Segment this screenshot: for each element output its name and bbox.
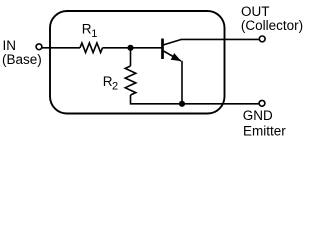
wire R1 to base — [103, 47, 162, 49]
collector lead — [164, 39, 182, 45]
wire collector to OUT — [181, 38, 259, 40]
svg-text:(Base): (Base) — [2, 52, 42, 67]
emitter arrowhead — [171, 53, 182, 61]
node base junction — [127, 45, 133, 51]
svg-text:1: 1 — [91, 28, 97, 40]
wire emitter down — [181, 61, 183, 104]
wire junction down to R2 — [130, 48, 132, 66]
transistor Q1 — [163, 39, 182, 62]
wire R2 bottom to emitter node — [131, 95, 183, 104]
resistor R2 — [125, 66, 136, 95]
terminal GND (Emitter) — [259, 100, 265, 106]
base bar — [161, 39, 164, 60]
terminal IN (Base) — [36, 44, 42, 50]
package outline — [50, 11, 225, 114]
wire emitter node to GND — [182, 103, 259, 105]
emitter lead — [164, 51, 182, 61]
node emitter junction — [179, 101, 185, 107]
svg-text:R: R — [82, 22, 92, 37]
label R1 — [82, 22, 98, 40]
label R2 — [103, 74, 118, 92]
svg-text:Emitter: Emitter — [243, 123, 286, 138]
resistor R1 — [80, 43, 103, 53]
svg-text:2: 2 — [112, 81, 118, 93]
terminal OUT (Collector) — [259, 36, 265, 42]
svg-text:IN: IN — [3, 38, 17, 53]
wire IN to R1 — [42, 47, 80, 49]
svg-text:GND: GND — [243, 108, 273, 123]
svg-text:(Collector): (Collector) — [241, 18, 303, 33]
